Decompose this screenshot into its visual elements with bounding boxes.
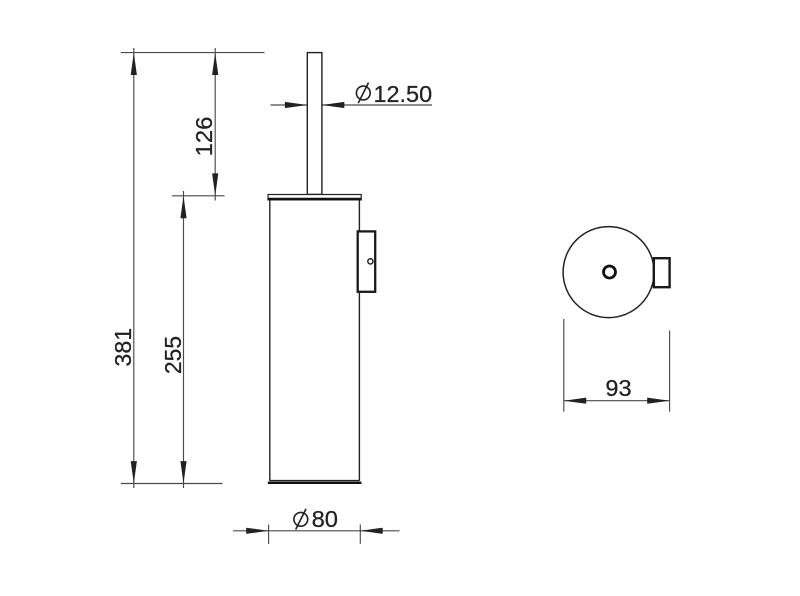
- wire extension line mid (lid level): [172, 195, 225, 197]
- top view center hole: [604, 266, 616, 278]
- wire extension line top (handle top level): [121, 52, 265, 54]
- dimension 381 line: [131, 48, 137, 488]
- wall bracket side view: [358, 231, 376, 291]
- svg-text:12.50: 12.50: [374, 81, 433, 107]
- dimension 93: [564, 319, 670, 412]
- svg-text:255: 255: [160, 336, 186, 374]
- svg-text:80: 80: [312, 506, 338, 532]
- canister body: [270, 200, 360, 481]
- bracket mounting hole: [368, 259, 373, 264]
- lid flange: [268, 195, 361, 200]
- label diameter 80: [294, 506, 338, 532]
- label diameter 12.50: [356, 81, 432, 107]
- wire extension baseline bottom: [121, 483, 223, 485]
- svg-text:126: 126: [191, 117, 217, 157]
- dimension 12.50 leader line: [271, 102, 433, 108]
- dimension 80 line: [233, 525, 400, 544]
- svg-text:93: 93: [605, 375, 631, 401]
- top view body circle: [563, 227, 654, 318]
- base bottom: [268, 481, 362, 483]
- svg-text:381: 381: [110, 328, 136, 367]
- top view bracket tab: [654, 258, 670, 287]
- dimension 126 line: [212, 48, 218, 201]
- brush handle: [307, 53, 322, 195]
- dimension 255 line: [180, 191, 186, 488]
